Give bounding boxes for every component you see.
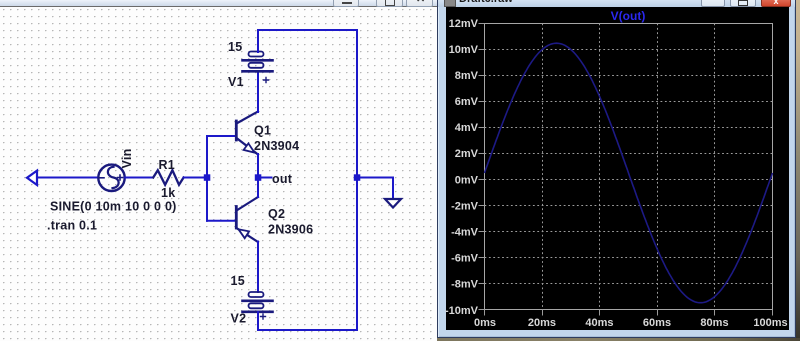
- svg-text:4mV: 4mV: [455, 122, 479, 134]
- resistor R1 zigzag: [153, 170, 183, 185]
- title bar icon: [444, 0, 456, 7]
- battery V2 plus mark: [261, 314, 266, 319]
- svg-text:-4mV: -4mV: [451, 227, 479, 239]
- minus mark left of source: [99, 177, 104, 179]
- wire arrow to source: [37, 177, 98, 179]
- svg-text:V1: V1: [228, 75, 244, 89]
- transistor Q2 emitter arrow: [239, 229, 250, 238]
- svg-text:0mV: 0mV: [455, 175, 479, 187]
- schematic area with dot grid: [0, 7, 437, 341]
- schematic toolbar strip: [0, 0, 437, 7]
- svg-text:Vin: Vin: [120, 149, 134, 169]
- battery V1 plus mark: [264, 78, 269, 83]
- vertical wire between bases: [206, 136, 208, 221]
- maximize button: [730, 0, 756, 7]
- horizontal gridlines: [485, 50, 773, 284]
- svg-text:R1: R1: [159, 158, 175, 172]
- junction out node: [255, 174, 261, 181]
- wire to ground: [357, 178, 393, 200]
- wire V1 top: [257, 30, 259, 52]
- battery V2 plate 2: [243, 310, 273, 313]
- input terminal arrow: [27, 171, 37, 185]
- transistor Q1 emitter diagonal: [237, 138, 259, 155]
- desktop strip bottom: [437, 338, 800, 341]
- svg-text:2mV: 2mV: [455, 148, 479, 160]
- svg-text:-8mV: -8mV: [451, 279, 479, 291]
- bottom rail wire: [258, 329, 357, 331]
- plus mark right of source: [118, 175, 123, 180]
- vertical gridlines: [543, 24, 715, 310]
- ground: [385, 199, 401, 208]
- voltage source Vin circle: [98, 165, 124, 191]
- wire Q1 base: [207, 135, 236, 137]
- junction input node: [204, 174, 211, 181]
- battery V1 lower pill: [249, 63, 264, 68]
- svg-text:1k: 1k: [161, 186, 175, 200]
- wire Q2 emitter down: [257, 242, 259, 293]
- desktop strip right: [796, 0, 800, 341]
- wire Q2 collector to out: [257, 178, 259, 197]
- svg-text:-2mV: -2mV: [451, 201, 479, 213]
- svg-text:out: out: [272, 172, 293, 186]
- svg-text:-6mV: -6mV: [451, 253, 479, 265]
- minimize button: [701, 0, 725, 7]
- svg-text:40ms: 40ms: [585, 317, 613, 329]
- battery V2 plate 1: [243, 299, 273, 302]
- right rail wire: [356, 30, 358, 330]
- svg-text:.tran 0.1: .tran 0.1: [47, 219, 97, 233]
- black plot client area: [446, 7, 789, 330]
- wire Q1 emitter down: [257, 154, 259, 178]
- y axis labels: [445, 18, 479, 317]
- svg-text:15: 15: [228, 40, 242, 54]
- battery V2 lower pill: [249, 303, 264, 308]
- svg-text:SINE(0 10m 10 0 0 0): SINE(0 10m 10 0 0 0): [50, 200, 177, 214]
- svg-text:12mV: 12mV: [449, 18, 479, 30]
- wire V2 bottom: [257, 312, 259, 330]
- waveform window title bar: [438, 0, 795, 7]
- svg-text:2N3906: 2N3906: [268, 223, 313, 237]
- wire R1 to junction: [184, 177, 207, 179]
- svg-text:Q1: Q1: [254, 124, 271, 138]
- y tick marks: [479, 24, 485, 310]
- close button: [761, 0, 791, 7]
- sine glyph inside source: [108, 167, 119, 188]
- schematic window minimize button: [333, 0, 359, 7]
- svg-text:-10mV: -10mV: [445, 305, 479, 317]
- svg-text:6mV: 6mV: [455, 96, 479, 108]
- battery V1 plate 1: [243, 59, 273, 62]
- svg-text:100ms: 100ms: [753, 317, 787, 329]
- svg-text:Q2: Q2: [268, 207, 285, 221]
- svg-text:60ms: 60ms: [643, 317, 671, 329]
- transistor Q2 base bar: [235, 207, 238, 229]
- battery V1 plate 2: [243, 70, 273, 73]
- transistor Q2 collector diagonal: [237, 197, 259, 211]
- title text Draft6.raw: [459, 0, 513, 5]
- svg-text:10mV: 10mV: [449, 44, 479, 56]
- trace V(out) sine curve: [485, 43, 773, 303]
- wire source to R1: [125, 177, 153, 179]
- svg-text:8mV: 8mV: [455, 70, 479, 82]
- plot axes box: [485, 24, 773, 310]
- transistor Q1 emitter arrow: [244, 143, 255, 152]
- junction right rail node: [354, 174, 361, 181]
- schematic window restore button: [376, 0, 403, 7]
- svg-text:2N3904: 2N3904: [254, 139, 299, 153]
- battery V2 top pill: [249, 292, 264, 297]
- svg-text:15: 15: [231, 274, 245, 288]
- svg-text:80ms: 80ms: [700, 317, 728, 329]
- transistor Q1 collector diagonal: [237, 112, 259, 124]
- svg-text:0ms: 0ms: [474, 317, 496, 329]
- top rail wire: [258, 29, 357, 31]
- transistor Q1 base bar: [235, 121, 238, 140]
- schematic window close button: [406, 0, 433, 7]
- battery V1 top pill: [249, 52, 264, 57]
- wire Q2 base: [207, 220, 236, 222]
- svg-text:V(out): V(out): [611, 9, 646, 23]
- transistor Q2 emitter diagonal: [237, 228, 259, 242]
- svg-text:V2: V2: [231, 312, 247, 326]
- waveform window frame: [437, 0, 796, 338]
- x tick marks: [485, 310, 773, 316]
- x axis labels: [474, 317, 788, 329]
- wire out stub: [258, 177, 272, 179]
- wire Q1 collector up: [257, 73, 259, 112]
- svg-text:20ms: 20ms: [528, 317, 556, 329]
